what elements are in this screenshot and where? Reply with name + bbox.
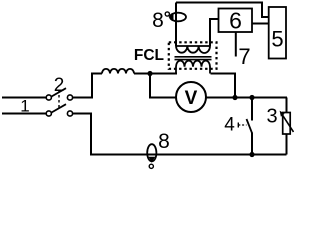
transformer T1 core bbox=[175, 57, 212, 60]
resistor 3 arrow bbox=[280, 111, 294, 132]
breaker 4 bottom lead bbox=[251, 133, 253, 155]
wire voltmeter right rail bbox=[206, 97, 287, 99]
wire box6 to box5 bbox=[252, 23, 269, 25]
switch S2 bottom pole bbox=[46, 104, 72, 116]
svg-text:1: 1 bbox=[20, 97, 29, 116]
transformer T1 primary winding bbox=[176, 61, 210, 74]
wire input line bottom bbox=[2, 113, 46, 115]
switch S2 top pole bbox=[46, 88, 72, 100]
FCL dotted box bbox=[169, 42, 217, 69]
node junction dot D bbox=[249, 152, 254, 157]
box 6 bbox=[219, 8, 253, 34]
wire secondary left lead up through probe bbox=[175, 3, 177, 47]
node junction dot A bbox=[147, 71, 152, 76]
resistor 3 top lead bbox=[286, 98, 288, 113]
breaker 4 blade bbox=[247, 119, 253, 133]
wire switch top to inductor bbox=[73, 74, 102, 98]
node junction dot B bbox=[232, 95, 237, 100]
breaker 4 actuator tick bbox=[237, 123, 239, 128]
box 5 bbox=[269, 7, 286, 59]
wire top run to box5 bbox=[176, 3, 269, 18]
svg-text:7: 7 bbox=[238, 44, 250, 69]
switch S2 mechanical link (dashed) bbox=[58, 90, 60, 109]
svg-text:FCL: FCL bbox=[134, 47, 164, 64]
inductor L1 bbox=[102, 69, 134, 74]
voltmeter V bbox=[176, 82, 206, 112]
breaker 4 actuator dashed link bbox=[238, 124, 246, 126]
node junction dot C bbox=[249, 95, 254, 100]
resistor 3 bottom lead bbox=[286, 134, 288, 155]
svg-text:3: 3 bbox=[266, 106, 277, 128]
svg-text:2: 2 bbox=[54, 75, 65, 96]
wire bottom rail bbox=[90, 154, 287, 156]
resistor 3 body bbox=[283, 113, 291, 135]
wire inductor to transformer primary bbox=[134, 73, 177, 75]
wire junction A down to voltmeter bbox=[150, 74, 177, 98]
lead 7 from box6 bbox=[235, 32, 237, 57]
transformer T1 secondary winding bbox=[176, 46, 210, 53]
svg-text:5: 5 bbox=[271, 27, 283, 52]
svg-text:4: 4 bbox=[224, 115, 235, 136]
svg-text:6: 6 bbox=[229, 8, 242, 34]
current probe 8 (top) bbox=[165, 12, 186, 21]
current probe 8 (bottom) bbox=[147, 144, 156, 168]
svg-text:V: V bbox=[185, 88, 198, 109]
breaker 4 top lead bbox=[251, 98, 253, 121]
wire primary right lead down to rail bbox=[211, 74, 236, 98]
svg-text:8: 8 bbox=[158, 130, 170, 153]
wire bottom-left drop bbox=[73, 114, 91, 155]
wire input line top bbox=[2, 97, 46, 99]
svg-text:8: 8 bbox=[152, 9, 164, 32]
wire secondary right lead to box6 bbox=[210, 19, 219, 46]
